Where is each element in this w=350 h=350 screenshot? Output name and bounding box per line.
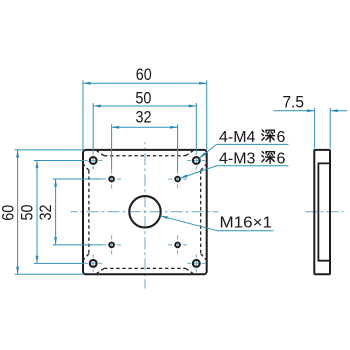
svg-text:50: 50 [18, 205, 37, 221]
svg-text:6: 6 [277, 150, 286, 167]
svg-text:4-M3: 4-M3 [219, 150, 256, 167]
svg-text:60: 60 [136, 65, 152, 84]
svg-text:M16×1: M16×1 [220, 215, 273, 232]
svg-text:32: 32 [36, 205, 55, 221]
svg-text:6: 6 [277, 129, 286, 146]
svg-text:50: 50 [135, 89, 151, 108]
svg-text:60: 60 [0, 205, 18, 221]
svg-text:32: 32 [136, 108, 152, 127]
svg-text:7.5: 7.5 [282, 92, 304, 111]
svg-text:4-M4: 4-M4 [219, 129, 256, 146]
